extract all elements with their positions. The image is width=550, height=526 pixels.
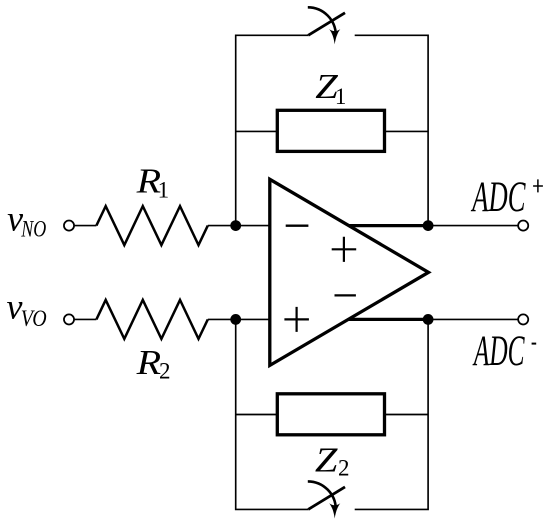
wire: vNO terminal to R1 [74,225,97,227]
wire: R2 to op-amp non-inverting input [208,318,270,320]
terminal ADC- [518,314,528,324]
wire: vVO terminal to R2 [74,318,97,320]
label Z1 [315,67,346,109]
impedance Z1 (box) [277,110,384,151]
node: non-inverting input junction [230,314,241,325]
label R2 [136,343,171,383]
svg-text:Z: Z [315,441,338,480]
switch (top feedback, chopper) [308,7,345,44]
label R1 [135,162,169,203]
wire: bottom feedback right segment [355,319,428,509]
label Z2 [315,441,350,481]
wire: to ADC+ terminal [428,225,518,227]
wire: Z2 left lead [236,414,278,416]
wire: top feedback right segment [355,35,428,225]
svg-text:1: 1 [158,178,170,203]
svg-text:ADC: ADC [470,174,526,221]
svg-text:NO: NO [21,217,47,242]
svg-text:R: R [136,343,162,382]
wire: op-amp - output (thick) [349,318,428,321]
svg-text:2: 2 [338,456,350,481]
op-amp U1 (fully differential) [270,179,429,365]
label ADC+ [470,174,542,221]
label vNO [7,199,47,242]
terminal vNO [64,221,74,231]
wire: bottom feedback left segment [236,319,309,509]
node: ADC- output junction [423,314,434,325]
node: inverting input junction [230,220,241,231]
label vVO [7,286,48,331]
wire: top feedback left segment [236,35,309,225]
svg-text:VO: VO [21,306,47,331]
resistor R2 [96,300,207,339]
terminal ADC+ [518,221,528,231]
wire: Z1 left lead [236,130,278,132]
terminal vVO [64,314,74,324]
wire: op-amp + output (thick) [349,224,428,227]
wire: Z1 right lead [385,130,429,132]
label ADC- [472,328,536,375]
resistor R1 [96,206,207,245]
impedance Z2 (box) [277,394,384,435]
switch (bottom feedback, chopper) [308,481,345,518]
svg-text:1: 1 [335,84,347,109]
wire: to ADC- terminal [428,318,518,320]
node: ADC+ output junction [423,220,434,231]
svg-text:2: 2 [159,359,171,384]
wire: Z2 right lead [385,414,429,416]
svg-text:ADC: ADC [472,328,525,375]
wire: R1 to op-amp inverting input [208,225,270,227]
